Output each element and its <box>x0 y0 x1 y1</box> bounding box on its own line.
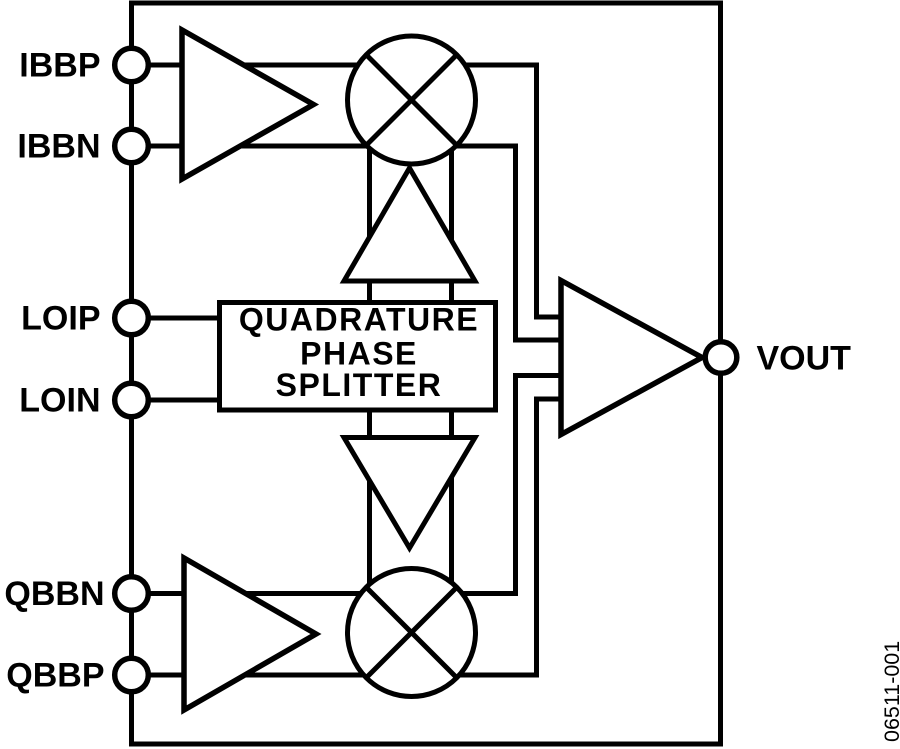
svg-text:LOIP: LOIP <box>21 300 100 338</box>
svg-text:IBBN: IBBN <box>17 128 100 166</box>
svg-text:VOUT: VOUT <box>757 340 852 378</box>
svg-text:QBBP: QBBP <box>6 657 104 695</box>
svg-text:QUADRATURE: QUADRATURE <box>239 302 479 338</box>
svg-text:LOIN: LOIN <box>19 382 100 420</box>
svg-text:QBBN: QBBN <box>4 575 104 613</box>
svg-text:06511-001: 06511-001 <box>880 641 900 742</box>
svg-text:SPLITTER: SPLITTER <box>276 367 443 403</box>
svg-text:IBBP: IBBP <box>19 47 100 85</box>
